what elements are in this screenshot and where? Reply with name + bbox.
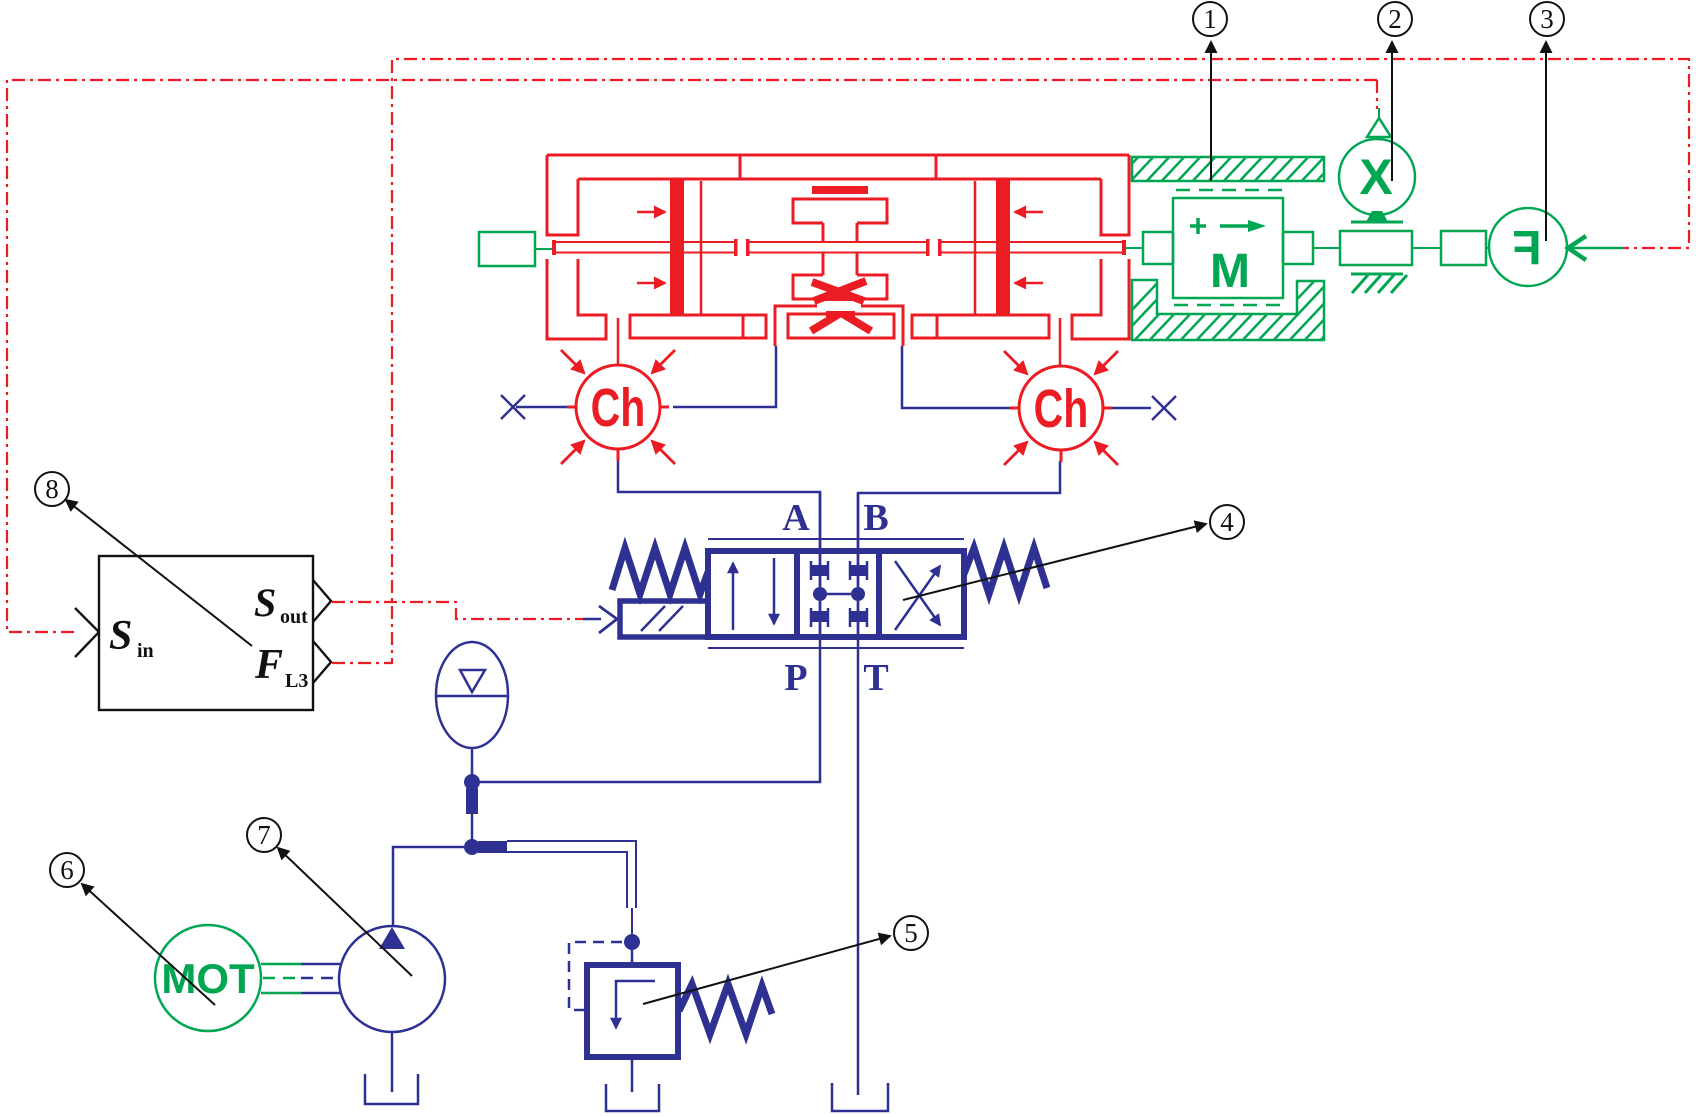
svg-text:2: 2 xyxy=(1388,4,1402,34)
callout 7 leader xyxy=(278,848,412,976)
wire: right Ch to center-right nozzle port xyxy=(902,346,1010,408)
piston right (thick) xyxy=(996,180,1010,316)
cylinder housing (red actuator body) xyxy=(547,155,1129,339)
wire: left Ch to blocked port xyxy=(516,406,567,409)
relief valve spring xyxy=(679,984,772,1034)
svg-text:S: S xyxy=(254,580,276,625)
callout 4 leader xyxy=(903,524,1206,600)
green rod end box (left) xyxy=(479,232,535,266)
supply junction node lower xyxy=(464,839,480,855)
svg-text:6: 6 xyxy=(60,855,74,885)
ground hatch under coupling xyxy=(1351,274,1407,293)
svg-text:T: T xyxy=(863,657,888,699)
callout 2 leader xyxy=(1391,42,1393,181)
nozzle housing xyxy=(775,306,903,346)
damping chamber Ch right xyxy=(1010,366,1112,462)
svg-text:M: M xyxy=(1210,245,1250,298)
rod end caps and couplings xyxy=(552,239,1126,256)
valve spring left xyxy=(612,548,708,594)
blocked port X right xyxy=(1152,396,1176,420)
wire: double-wall pipe to relief valve xyxy=(507,841,636,934)
relief valve junction dot xyxy=(624,934,640,950)
flapper armature I-frame xyxy=(793,199,887,299)
supply junction node upper xyxy=(464,774,480,790)
svg-text:5: 5 xyxy=(904,918,918,948)
svg-text:L3: L3 xyxy=(285,670,308,692)
motor-pump shaft xyxy=(261,964,301,993)
wire: left Ch bottom to valve port A xyxy=(618,461,820,587)
svg-text:B: B xyxy=(863,497,888,539)
relief valve tank xyxy=(631,1057,634,1092)
wire: Sout command dash-dot line to valve pilot xyxy=(332,602,584,619)
rod to M link xyxy=(1126,247,1143,249)
svg-text:P: P xyxy=(784,657,807,699)
svg-text:MOT: MOT xyxy=(161,955,255,1002)
controller block xyxy=(99,556,313,710)
svg-text:A: A xyxy=(782,497,810,539)
flapper armature top bar xyxy=(812,186,868,194)
force input arrow xyxy=(1568,236,1586,260)
damping chamber Ch left xyxy=(567,365,669,461)
wire: P line valve to supply junction xyxy=(480,601,820,782)
servo valve 4/3 body xyxy=(708,539,964,648)
sliding gap dashed lines xyxy=(1174,190,1283,305)
valve spring right xyxy=(964,548,1047,594)
motor MOT xyxy=(155,925,261,1031)
sensor X pedestal xyxy=(1366,211,1388,222)
wire: position feedback dash-dot line (sensor X to Sin) xyxy=(7,80,1377,632)
callout 3 leader xyxy=(1545,42,1547,241)
flapper nozzle cross xyxy=(812,281,866,301)
valve pilot solenoid box xyxy=(620,601,708,637)
svg-text:Ch: Ch xyxy=(591,379,646,439)
wire: right Ch bottom to valve port B xyxy=(858,461,1060,587)
piston left (thick) xyxy=(670,180,684,316)
blocked port X left xyxy=(501,395,525,419)
sensor signal triangle xyxy=(1367,118,1391,137)
T line tank xyxy=(832,1083,888,1111)
wire: T line valve to tank xyxy=(857,601,860,1095)
wire: junction to pump xyxy=(393,847,464,926)
wire: left Ch to center-left nozzle port xyxy=(673,346,776,407)
FL3 output chevron xyxy=(313,641,331,683)
svg-text:Ch: Ch xyxy=(1034,380,1089,440)
callout 1 leader xyxy=(1210,42,1212,181)
pressure arrows on right piston xyxy=(1015,212,1043,283)
piston rod xyxy=(556,242,1122,253)
svg-text:S: S xyxy=(109,613,132,659)
svg-text:7: 7 xyxy=(257,820,271,850)
callout 8 leader xyxy=(66,500,252,646)
wire: right Ch to blocked port xyxy=(1112,407,1151,410)
svg-text:out: out xyxy=(280,606,308,628)
shaft to load cell box xyxy=(1412,247,1441,249)
mass block M xyxy=(1173,198,1283,298)
valve left position arrows xyxy=(733,558,774,630)
wire: force command dash-dot line (FL3 to F) xyxy=(332,59,1689,663)
svg-text:1: 1 xyxy=(1203,4,1217,34)
cylinder port stubs to Ch nodes xyxy=(618,318,1060,366)
callout 6 leader xyxy=(82,884,215,1005)
Sin input arrow xyxy=(75,608,99,657)
guide rail bottom (hatched U) xyxy=(1100,276,1381,344)
pressure arrows on left piston xyxy=(637,212,665,283)
svg-text:X: X xyxy=(1359,149,1392,205)
pump xyxy=(339,926,445,1032)
pilot input arrow xyxy=(583,618,601,621)
cylinder bottom end-cap plates xyxy=(630,315,1049,338)
relief valve pilot dashed line xyxy=(569,942,622,1010)
port labels xyxy=(782,497,888,699)
svg-text:F: F xyxy=(1512,222,1541,275)
valve right position crossed arrows xyxy=(895,561,940,630)
accumulator xyxy=(436,642,508,775)
lower jet deflector xyxy=(811,314,871,331)
svg-text:8: 8 xyxy=(45,474,59,504)
position sensor X xyxy=(1339,139,1415,215)
M shaft stub boxes xyxy=(1143,232,1173,264)
coupling block under sensor X xyxy=(1340,231,1412,265)
Sout output chevron xyxy=(313,580,331,622)
relief valve body xyxy=(587,965,678,1057)
valve center position closed ports xyxy=(811,492,867,637)
callout 5 leader xyxy=(643,936,890,1004)
svg-text:in: in xyxy=(137,640,154,662)
labels Sin Sout FL3 xyxy=(109,580,308,692)
force actuator F xyxy=(1489,208,1567,286)
pump suction tank xyxy=(365,1074,418,1104)
svg-text:F: F xyxy=(254,642,283,688)
guide rail top (hatched) xyxy=(1112,153,1359,185)
svg-text:3: 3 xyxy=(1540,4,1554,34)
svg-text:4: 4 xyxy=(1220,507,1234,537)
